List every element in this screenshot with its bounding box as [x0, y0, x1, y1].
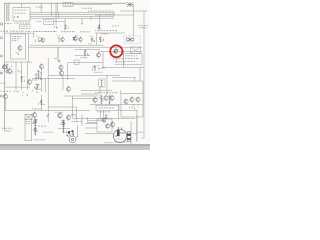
block U3 detector [44, 19, 54, 24]
transistor Q12 [39, 63, 43, 70]
resistor R8 [55, 59, 59, 63]
wire [25, 140, 32, 142]
wire [57, 47, 59, 58]
block U9 [99, 79, 106, 87]
node marker 5 [0, 72, 2, 74]
wire [116, 57, 118, 62]
capacitor C2 chain [34, 119, 37, 136]
wire [33, 139, 45, 141]
transistor Q13 [59, 64, 63, 71]
resistor R2 [85, 51, 90, 56]
wire [81, 93, 98, 95]
wire [120, 94, 122, 118]
wire [88, 120, 105, 122]
scanner background band [0, 146, 150, 150]
wire [41, 95, 43, 111]
wire [136, 115, 138, 141]
wire drop B [50, 3, 52, 16]
label [97, 110, 110, 113]
wire bus [30, 12, 114, 14]
label [32, 79, 38, 82]
label [94, 71, 103, 74]
capacitor C9 [23, 92, 30, 96]
label right edge [138, 24, 148, 27]
capacitor C4 [106, 115, 109, 118]
wire drop A [40, 3, 42, 13]
label [72, 120, 82, 123]
label under U1 [14, 22, 30, 25]
diode D1 [64, 26, 68, 30]
wire [99, 87, 101, 96]
wire [5, 32, 36, 34]
node marker 2 [0, 23, 2, 25]
resistor R10 [35, 84, 41, 89]
wire drop D [64, 18, 66, 25]
connector CN1 [63, 3, 73, 7]
transistor Q17 [32, 112, 37, 119]
wire [73, 4, 112, 6]
capacitor C7 [92, 65, 104, 71]
wire net13 [73, 117, 136, 119]
wire [130, 121, 132, 144]
transistor Q1 [98, 27, 102, 30]
wire [31, 120, 33, 141]
wire [47, 58, 49, 122]
wire [72, 97, 98, 99]
wire [81, 89, 112, 91]
transformer T1 [131, 47, 141, 54]
resistor R5 [99, 98, 104, 101]
wire [24, 120, 26, 141]
transistor Q7 [126, 37, 134, 43]
wire [123, 50, 125, 67]
transistor Q16 [3, 93, 7, 100]
transistor Q2 [18, 45, 22, 52]
transistor Q21 [104, 95, 108, 102]
wire net4 [98, 51, 142, 53]
transistor Q28 [110, 121, 114, 128]
wire [134, 78, 136, 82]
wire [44, 78, 46, 92]
wire net1 [30, 44, 103, 46]
transistor Q11 [27, 79, 31, 86]
wire [15, 62, 17, 90]
label [112, 25, 119, 28]
node index column [6, 3, 8, 21]
wire [100, 111, 102, 119]
transistor Q20 [93, 97, 97, 104]
resistor R13 [66, 131, 74, 136]
wire net14 [85, 133, 114, 135]
transistor Q24 [130, 96, 134, 103]
resistor R12 [32, 90, 38, 93]
node marker 3 [0, 37, 2, 39]
wire [121, 93, 143, 95]
wire drop E [81, 18, 83, 24]
wire [95, 33, 97, 45]
wire drop G [98, 15, 100, 29]
wire [102, 52, 104, 68]
label row right [95, 29, 117, 32]
wire [58, 128, 70, 130]
jack J1 [67, 136, 78, 143]
transistor Q3 [36, 39, 41, 42]
transistor Q25 [136, 96, 140, 103]
label [133, 132, 138, 135]
wire [95, 32, 125, 34]
wire [118, 105, 120, 119]
label row [1, 90, 11, 93]
wire [21, 62, 23, 90]
wire [72, 96, 74, 118]
wire [20, 3, 22, 7]
transistor Q9 [3, 64, 7, 70]
wire [136, 111, 138, 142]
block U4 IF amp [11, 34, 26, 59]
label [1, 82, 7, 85]
label inside speaker [116, 138, 123, 141]
wire net7 [49, 74, 120, 76]
label under circle [113, 57, 123, 60]
wire [120, 90, 122, 93]
page background [0, 0, 150, 150]
resistor R16 [99, 37, 103, 41]
label bottom [104, 141, 113, 144]
resistor R7 [15, 52, 19, 55]
transistor Q5 [74, 36, 78, 42]
wire [53, 21, 65, 23]
label [82, 7, 92, 10]
capacitor C11 [47, 114, 50, 118]
resistor R3 [35, 73, 43, 80]
antenna E1 [127, 2, 134, 7]
wire [88, 121, 98, 123]
wire drop F [90, 16, 92, 20]
wire [85, 127, 97, 129]
label top [36, 6, 43, 9]
speaker SP1 [113, 127, 126, 143]
capacitor C8 [21, 77, 25, 82]
resistor R14 [72, 114, 75, 117]
page bottom edge [0, 144, 150, 145]
transistor Q15 [66, 86, 70, 93]
block U1 tuner [13, 8, 30, 22]
label [32, 107, 42, 110]
resistor R11 [54, 59, 60, 62]
wire [95, 14, 134, 16]
wire net2 [28, 46, 142, 48]
wire [75, 107, 77, 122]
transistor Q6 (circled) [114, 48, 118, 54]
wire [112, 77, 136, 79]
wire drop H [113, 12, 115, 17]
block U7 [96, 106, 119, 111]
wire [33, 33, 35, 38]
resistor R4 [39, 101, 45, 105]
annotation red circle [110, 45, 122, 57]
label row BR [95, 91, 118, 94]
label row [88, 10, 113, 13]
wire [114, 141, 128, 143]
capacitor C10 [15, 16, 19, 18]
wire net10 [32, 77, 75, 79]
wire [112, 80, 143, 82]
label left of U3 [37, 20, 42, 23]
wire [139, 67, 141, 81]
label below circle2 [115, 60, 125, 63]
wire [41, 69, 43, 92]
wire [5, 100, 7, 111]
wire drop C [55, 3, 57, 26]
wire [103, 111, 105, 119]
label [39, 125, 47, 128]
wire [87, 117, 89, 122]
wire [81, 115, 83, 126]
resistor R9 [2, 65, 14, 74]
transistor Q19 [66, 114, 70, 121]
wire [67, 63, 69, 81]
transformer T2 [25, 115, 32, 120]
transistor Q23 [124, 98, 128, 105]
transistor Q26 [102, 117, 106, 123]
wire [84, 50, 86, 58]
wire net11 [5, 110, 91, 112]
wire [120, 110, 138, 112]
wire [121, 116, 143, 118]
transistor Q14 [59, 70, 63, 77]
capacitor C1 [18, 71, 22, 73]
node marker 4 [0, 55, 2, 57]
wire net12 [90, 104, 143, 106]
transistor Q27 [106, 123, 110, 129]
wire [27, 33, 29, 62]
transistor Q8 [97, 52, 101, 58]
wire [27, 62, 29, 90]
resistor network R17 [129, 105, 138, 109]
block U5 [75, 60, 80, 65]
wire net6 [103, 66, 144, 68]
label [138, 131, 144, 134]
node marker 6 [0, 95, 2, 97]
wire [75, 55, 90, 57]
block U2 [20, 25, 31, 29]
potentiometer VR1 chain [62, 120, 65, 134]
wire [85, 122, 97, 124]
label inside [26, 120, 31, 123]
resistor R1 [91, 38, 95, 42]
wire net5 [68, 62, 103, 64]
wire [57, 47, 59, 58]
wire [64, 95, 98, 97]
wire [106, 75, 108, 95]
label [43, 131, 53, 134]
label bottom left [2, 127, 12, 130]
wire net8 [5, 61, 33, 63]
transistor Q18 [58, 112, 63, 119]
block U10 [124, 54, 143, 65]
wire [142, 81, 144, 117]
wire net9 [5, 86, 31, 88]
section title text [1, 30, 9, 33]
transistor Q22 [110, 95, 114, 102]
wire [62, 75, 64, 90]
designator labels [36, 35, 39, 38]
label [80, 56, 88, 59]
label [55, 111, 63, 114]
wire [133, 5, 135, 36]
transistor Q10 [7, 68, 11, 75]
block U8 [97, 119, 112, 132]
transistor Q4 [58, 38, 60, 42]
wire [48, 106, 76, 108]
capacitor C5 electrolytic [127, 132, 131, 141]
wire net3 [75, 49, 100, 51]
